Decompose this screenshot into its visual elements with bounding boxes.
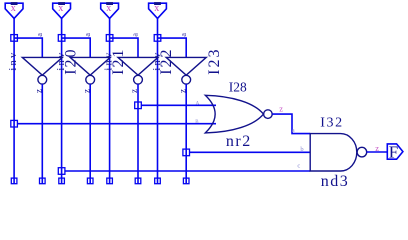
wire NOR input B [17, 123, 216, 125]
junction square on x2 [106, 35, 113, 42]
wire input x3 vertical [157, 18, 159, 183]
svg-text:b: b [300, 146, 303, 153]
svg-text:inv: inv [56, 51, 67, 71]
port label x1 [58, 2, 65, 5]
output port F pentagon [387, 144, 403, 159]
NAND gate I32 (cell nd3) body [310, 134, 357, 171]
svg-text:x: x [11, 3, 16, 14]
input port x3 [149, 3, 167, 18]
svg-text:z: z [177, 89, 187, 93]
wire end square bottom of input 1 [59, 178, 65, 184]
svg-text:A: A [196, 101, 200, 106]
svg-text:inv: inv [8, 51, 19, 71]
wire branch to inverter I22 input [110, 38, 138, 57]
svg-text:x: x [58, 3, 63, 14]
wire end square bottom of inverter I23 output [183, 178, 189, 184]
wire input x0 vertical [13, 18, 15, 183]
wire inverter I22 output vertical [137, 84, 139, 183]
port label x3 [154, 2, 161, 5]
wire input x2 vertical [109, 18, 111, 183]
wire branch to inverter I23 input [158, 38, 187, 57]
wire branch to inverter I21 input [62, 38, 91, 57]
svg-text:nr2: nr2 [226, 133, 252, 150]
NOR gate I28 (cell nr2) body [205, 95, 263, 133]
svg-text:a: a [35, 33, 44, 37]
junction square tap on inv I22 output (NOR input A) [135, 102, 142, 109]
svg-text:x: x [106, 3, 111, 14]
svg-text:I28: I28 [229, 79, 247, 94]
inverter I21 output bubble [86, 75, 95, 84]
wire end square bottom of input 3 [155, 178, 161, 184]
inverter I22 (cell inv) triangle [118, 57, 158, 75]
svg-text:F: F [389, 143, 398, 162]
port label x0 [11, 2, 18, 5]
svg-text:nd3: nd3 [321, 173, 350, 190]
inverter I23 (cell inv) triangle [166, 57, 206, 75]
NAND gate I32 output bubble [357, 147, 367, 157]
svg-text:I32: I32 [320, 115, 343, 130]
wire NOR output to NAND input a [272, 114, 310, 134]
wire inverter I23 output vertical [185, 84, 187, 183]
svg-text:inv: inv [104, 51, 115, 71]
wire end square bottom of input 2 [107, 178, 113, 184]
junction square on x0 [11, 35, 18, 42]
svg-text:z: z [129, 89, 139, 93]
svg-text:I23: I23 [206, 47, 223, 74]
wire end square bottom of inverter I21 output [87, 178, 93, 184]
svg-text:z: z [34, 89, 44, 93]
svg-text:a: a [131, 33, 140, 37]
svg-text:a: a [83, 33, 92, 37]
junction square tap on x0 wire (NOR input B) [11, 120, 18, 127]
junction square tap on inv I23 output (NAND input b) [183, 149, 190, 156]
inverter I22 output bubble [134, 75, 143, 84]
wire end square bottom of inverter I20 output [40, 178, 46, 184]
inverter I20 output bubble [38, 75, 47, 84]
junction square tap on x1 wire (NAND input c) [58, 168, 65, 175]
port label x2 [106, 2, 113, 5]
junction square on x3 [154, 35, 161, 42]
inverter I23 output bubble [182, 75, 191, 84]
inverter I20 (cell inv) triangle [22, 57, 62, 75]
junction square on x1 [58, 35, 65, 42]
wire inverter I21 output vertical [89, 84, 91, 183]
svg-text:c: c [297, 162, 300, 169]
svg-text:x: x [154, 3, 159, 14]
svg-text:a: a [179, 33, 188, 37]
svg-text:inv: inv [152, 51, 163, 71]
wire inverter I20 output vertical [41, 84, 43, 183]
svg-text:a: a [292, 127, 295, 134]
wire NAND input b [190, 151, 311, 153]
input port x1 [53, 3, 71, 18]
input port x2 [101, 3, 119, 18]
wire branch to inverter I20 input [14, 38, 42, 57]
NOR gate I28 output bubble [264, 110, 273, 119]
wire input x1 vertical [61, 18, 63, 183]
wire NOR input A [141, 104, 216, 106]
input port x0 [5, 3, 23, 18]
svg-text:z: z [81, 89, 91, 93]
inverter I21 (cell inv) triangle [70, 57, 110, 75]
wire end square bottom of inverter I22 output [135, 178, 141, 184]
wire NAND output to port F [367, 151, 388, 153]
svg-text:z: z [279, 104, 283, 114]
wire end square bottom of input 0 [11, 178, 17, 184]
wire NAND input c [65, 170, 310, 172]
